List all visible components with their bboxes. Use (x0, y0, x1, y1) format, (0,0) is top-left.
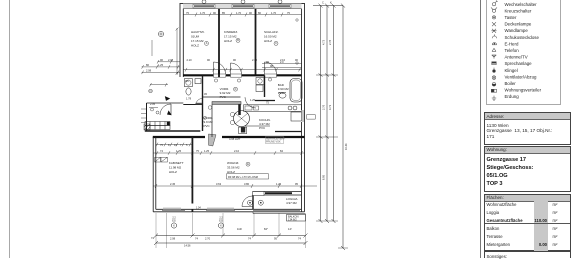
svg-text:33.56 M2: 33.56 M2 (227, 166, 240, 170)
svg-text:1.25: 1.25 (176, 149, 182, 153)
svg-text:90: 90 (207, 58, 210, 62)
svg-text:1.25: 1.25 (250, 98, 256, 102)
svg-text:EG: EG (219, 220, 223, 223)
svg-text:17.15 M2: 17.15 M2 (224, 35, 237, 39)
svg-text:16.50 M2: 16.50 M2 (264, 35, 277, 39)
svg-text:74: 74 (160, 149, 163, 153)
svg-text:Taster: Taster (505, 15, 517, 20)
svg-text:3.63: 3.63 (216, 182, 222, 186)
svg-text:7: 7 (180, 143, 182, 147)
svg-text:4.95 LMT: 4.95 LMT (229, 137, 241, 141)
svg-text:74: 74 (248, 236, 251, 240)
svg-text:90: 90 (266, 60, 269, 64)
svg-text:B: B (237, 39, 239, 42)
svg-text:8: 8 (168, 143, 170, 147)
svg-text:PVC: PVC (220, 95, 227, 99)
svg-text:Wohnungsverteiler: Wohnungsverteiler (505, 88, 542, 93)
svg-text:RF 98 M2 + LTV M LOSM: RF 98 M2 + LTV M LOSM (228, 175, 258, 179)
svg-text:1.70: 1.70 (271, 11, 277, 15)
svg-text:PVC: PVC (204, 124, 211, 128)
svg-text:14³: 14³ (288, 227, 292, 231)
svg-text:SCHLAFZ.: SCHLAFZ. (264, 30, 279, 34)
svg-text:K: K (220, 225, 222, 228)
svg-text:HOLZ: HOLZ (191, 44, 199, 48)
svg-text:Deckenlampe: Deckenlampe (505, 22, 532, 27)
svg-text:1.25: 1.25 (276, 182, 282, 186)
svg-text:84: 84 (280, 149, 283, 153)
svg-text:WC: WC (185, 79, 189, 83)
svg-text:5: 5 (186, 143, 188, 147)
svg-text:HOLZ: HOLZ (169, 170, 177, 174)
svg-text:95: 95 (295, 182, 298, 186)
svg-text:HOLZ: HOLZ (224, 39, 232, 43)
svg-text:PVC: PVC (259, 126, 266, 130)
svg-text:HOLZ: HOLZ (264, 39, 272, 43)
svg-text:11.98 M2: 11.98 M2 (169, 166, 182, 170)
svg-text:2.76: 2.76 (328, 39, 332, 45)
svg-text:D: D (235, 88, 237, 91)
svg-text:75: 75 (196, 149, 199, 153)
svg-text:3.80: 3.80 (244, 182, 250, 186)
svg-text:2.08: 2.08 (170, 236, 176, 240)
svg-text:90: 90 (249, 11, 252, 15)
svg-text:74: 74 (151, 236, 154, 240)
svg-text:PRUNE VOK: PRUNE VOK (266, 141, 281, 144)
svg-text:1.70: 1.70 (200, 11, 206, 15)
svg-text:90: 90 (213, 11, 216, 15)
svg-text:C: C (322, 0, 324, 4)
svg-text:80: 80 (258, 11, 261, 15)
svg-text:95: 95 (274, 236, 277, 240)
svg-text:Boiler: Boiler (505, 81, 517, 86)
svg-text:2.45: 2.45 (170, 182, 176, 186)
svg-text:10.44: 10.44 (344, 143, 348, 150)
svg-text:C: C (275, 42, 277, 45)
svg-text:96: 96 (160, 58, 163, 62)
svg-text:1.70: 1.70 (236, 11, 242, 15)
svg-text:4.73: 4.73 (322, 39, 326, 45)
svg-text:6.95: 6.95 (322, 174, 326, 180)
svg-text:K: K (173, 225, 175, 228)
svg-text:Sprechanlage: Sprechanlage (505, 61, 533, 66)
svg-text:110²: 110² (237, 227, 242, 231)
svg-text:Wandlampe: Wandlampe (505, 28, 529, 33)
svg-text:2.08: 2.08 (146, 68, 152, 72)
svg-text:75: 75 (287, 11, 290, 15)
svg-text:1.78: 1.78 (186, 97, 192, 101)
svg-text:K: K (330, 0, 332, 4)
svg-text:1.25: 1.25 (158, 63, 164, 67)
svg-text:98: 98 (270, 64, 273, 68)
svg-text:85: 85 (222, 11, 225, 15)
svg-text:2.0: 2.0 (280, 60, 284, 64)
svg-text:Antenne/TV: Antenne/TV (505, 55, 528, 60)
svg-text:Klingel: Klingel (505, 68, 518, 73)
svg-text:90: 90 (295, 58, 298, 62)
svg-text:HAUPTZI.: HAUPTZI. (191, 30, 205, 34)
svg-text:Schukosteckdose: Schukosteckdose (505, 35, 540, 40)
svg-text:45: 45 (204, 92, 207, 96)
svg-text:134.8/2: 134.8/2 (288, 218, 297, 222)
svg-text:4.73: 4.73 (328, 104, 332, 110)
svg-text:Telefon: Telefon (505, 48, 520, 53)
svg-text:Wechselschalter: Wechselschalter (505, 2, 538, 7)
svg-text:14.56: 14.56 (184, 244, 191, 248)
svg-text:2.10: 2.10 (187, 58, 193, 62)
svg-text:74: 74 (195, 236, 198, 240)
svg-text:EG: EG (172, 220, 176, 223)
svg-text:2.08: 2.08 (168, 58, 174, 62)
svg-text:2.70: 2.70 (205, 236, 211, 240)
svg-text:90: 90 (233, 58, 236, 62)
svg-text:74: 74 (298, 236, 301, 240)
svg-text:2.10: 2.10 (234, 149, 240, 153)
svg-text:01UM: 01UM (191, 35, 200, 39)
svg-text:Erdung: Erdung (505, 94, 520, 99)
svg-text:A: A (206, 42, 208, 45)
svg-text:1.04: 1.04 (196, 207, 201, 210)
svg-text:1.25: 1.25 (204, 149, 210, 153)
svg-text:75: 75 (186, 11, 189, 15)
svg-text:17.15 M2: 17.15 M2 (191, 39, 204, 43)
svg-text:KINDERZ.: KINDERZ. (224, 30, 238, 34)
svg-text:Ventilator/Abzug: Ventilator/Abzug (505, 74, 538, 79)
svg-text:E: E (247, 163, 249, 166)
svg-text:4.97 M2: 4.97 M2 (286, 201, 297, 205)
svg-text:HOLZ: HOLZ (227, 170, 235, 174)
svg-text:Kreuzschalter: Kreuzschalter (505, 8, 532, 13)
svg-text:E-Herd: E-Herd (505, 41, 519, 46)
svg-text:PVC: PVC (278, 91, 285, 95)
svg-text:75: 75 (160, 143, 163, 147)
svg-text:KABINETT: KABINETT (169, 161, 184, 165)
svg-text:84°: 84° (264, 227, 268, 231)
svg-text:WOHNZ.: WOHNZ. (227, 161, 239, 165)
svg-text:86: 86 (146, 63, 149, 67)
svg-text:2.05: 2.05 (150, 102, 156, 106)
svg-text:2.76: 2.76 (322, 104, 326, 110)
svg-text:2.10: 2.10 (252, 58, 258, 62)
